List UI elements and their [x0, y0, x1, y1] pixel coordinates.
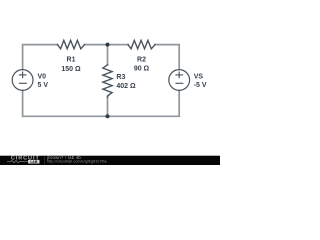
wire node B to VS bottom: [108, 90, 180, 116]
CircuitLab logo LAB box: [28, 160, 40, 164]
wire V0 bottom rail: [23, 90, 108, 116]
svg-text:R3: R3: [116, 74, 125, 81]
svg-text:-5 V: -5 V: [194, 82, 207, 89]
svg-text:VS: VS: [194, 74, 204, 81]
svg-text:5 V: 5 V: [38, 82, 49, 89]
node B junction dot: [106, 114, 110, 118]
wire R2 to VS top: [155, 45, 179, 70]
svg-text:R1: R1: [67, 57, 76, 64]
svg-text:150 Ω: 150 Ω: [61, 66, 81, 73]
svg-text:http://circuitlab.com/c/q2kg53: http://circuitlab.com/c/q2kg53c7fbe: [47, 160, 107, 164]
svg-text:90 Ω: 90 Ω: [134, 65, 150, 72]
svg-text:R2: R2: [137, 56, 146, 63]
voltage source VS: [169, 70, 190, 91]
svg-text:V0: V0: [38, 74, 47, 81]
svg-text:LAB: LAB: [30, 160, 38, 164]
watermark divider: [44, 157, 46, 165]
watermark bar: [0, 156, 220, 165]
voltage source V0: [12, 70, 33, 91]
wire V0 top to R1: [23, 45, 58, 70]
resistor R1: [58, 40, 85, 48]
wire R3 to node B: [107, 97, 109, 116]
wire node A to R2: [108, 44, 129, 46]
wire node A to R3: [107, 45, 109, 65]
wire R1 to node A: [85, 44, 108, 46]
CircuitLab logo zigzag: [7, 160, 28, 162]
resistor R3: [103, 65, 112, 97]
svg-text:402 Ω: 402 Ω: [116, 83, 136, 90]
resistor R2: [128, 40, 155, 48]
node A junction dot: [106, 43, 110, 47]
